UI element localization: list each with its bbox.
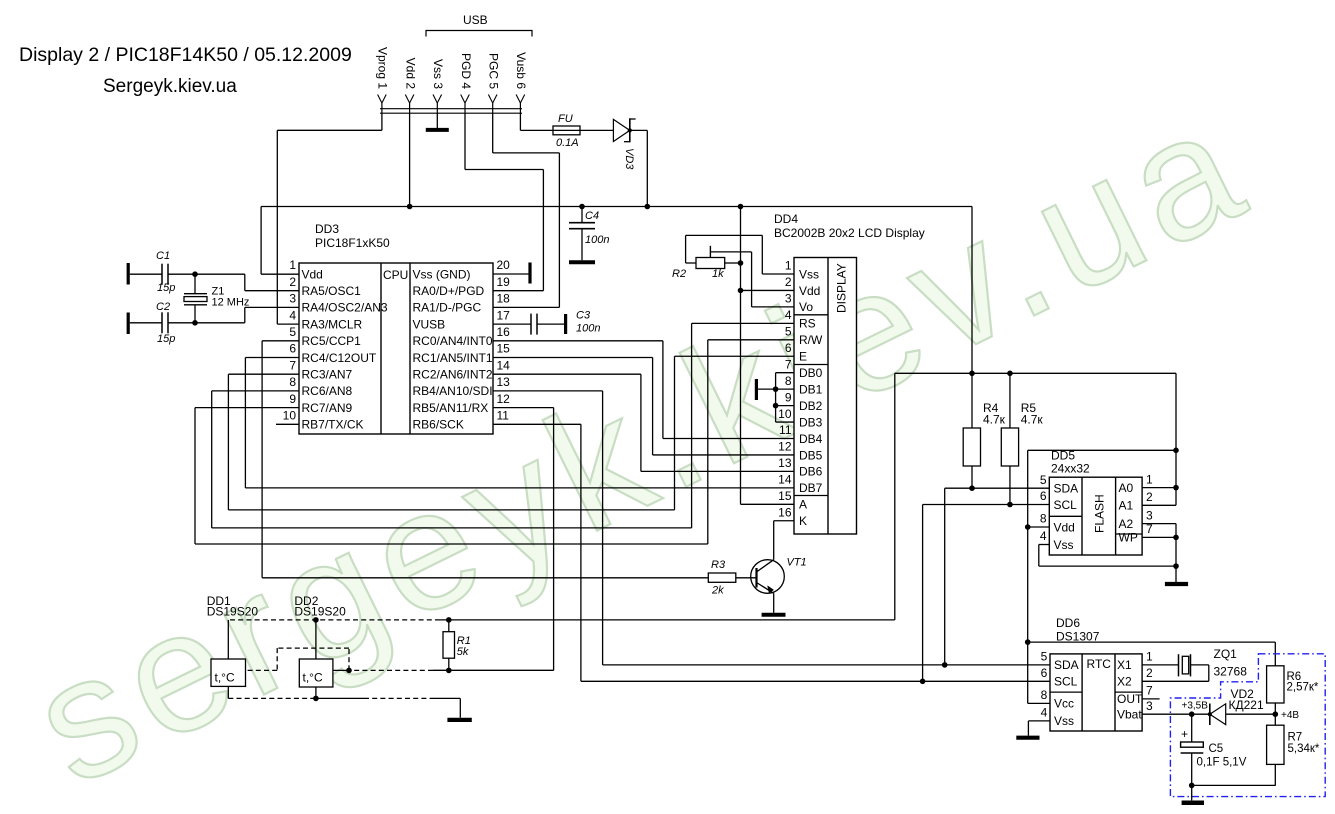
svg-text:2: 2: [289, 275, 296, 289]
svg-text:RC5/CCP1: RC5/CCP1: [302, 334, 362, 348]
svg-text:8: 8: [1040, 512, 1047, 526]
wire R2 left to LCD Vss: [686, 235, 794, 274]
svg-text:BC2002B 20x2 LCD Display: BC2002B 20x2 LCD Display: [774, 226, 925, 240]
svg-text:1: 1: [289, 258, 296, 272]
title text: [19, 44, 352, 66]
wire Vdd pin2 to +5V rail: [409, 113, 411, 206]
junction R1 top: [446, 617, 452, 623]
DD3 pin 17 VUSB: [413, 308, 511, 331]
svg-text:4: 4: [785, 308, 792, 322]
wire 1-wire DQ net RB5: [433, 408, 554, 671]
svg-text:RB5/AN11/RX: RB5/AN11/RX: [413, 401, 489, 415]
subtitle text: [103, 76, 237, 97]
USB pin 3 Vss: [431, 59, 445, 113]
junction DD2 Vdd: [313, 617, 319, 623]
DD3 pin 20 Vss (GND): [413, 258, 511, 281]
svg-text:RA4/OSC2/AN3: RA4/OSC2/AN3: [302, 301, 388, 315]
svg-text:5: 5: [1040, 473, 1047, 487]
svg-text:10: 10: [778, 407, 792, 421]
capacitor C2 15p: [128, 301, 245, 345]
temperature sensor DD1 DS19S20: [207, 594, 259, 686]
wire R3 to VT1 base: [736, 577, 757, 579]
svg-text:Display 2 / PIC18F14K50 / 05.1: Display 2 / PIC18F14K50 / 05.12.2009: [19, 44, 352, 66]
svg-text:Vss: Vss: [1054, 714, 1074, 728]
svg-text:PGD 4: PGD 4: [459, 53, 473, 89]
svg-text:K: K: [799, 514, 807, 528]
svg-text:SDA: SDA: [1054, 482, 1079, 496]
svg-text:32768: 32768: [1214, 665, 1248, 679]
svg-text:RA0/D+/PGD: RA0/D+/PGD: [413, 284, 485, 298]
svg-text:8: 8: [1041, 688, 1048, 702]
svg-text:VT1: VT1: [787, 557, 807, 569]
junction pull-up rail/R4: [969, 371, 975, 377]
junction DB1: [773, 386, 779, 392]
ground USB Vss: [426, 113, 449, 130]
svg-text:100n: 100n: [576, 323, 600, 335]
svg-text:RB4/AN10/SDI: RB4/AN10/SDI: [413, 384, 493, 398]
DD3 pin 15 RC1/AN5/INT1: [413, 342, 511, 365]
DD5 pin 2 A1: [1119, 490, 1154, 513]
svg-text:6: 6: [1041, 666, 1048, 680]
svg-text:2: 2: [1146, 666, 1153, 680]
svg-text:DS19S20: DS19S20: [294, 605, 346, 619]
resistor R3 2k: [708, 559, 736, 597]
svg-text:24xx32: 24xx32: [1051, 462, 1090, 476]
svg-text:C3: C3: [576, 310, 591, 322]
svg-text:DB4: DB4: [799, 432, 823, 446]
svg-text:3: 3: [785, 292, 792, 306]
svg-text:18: 18: [497, 292, 511, 306]
svg-text:5k: 5k: [457, 646, 469, 658]
svg-text:DB1: DB1: [799, 382, 823, 396]
USB pin 4 PGD: [459, 53, 473, 113]
DD5 pin 3 A2: [1119, 508, 1154, 531]
svg-text:13: 13: [778, 456, 792, 470]
svg-text:FU: FU: [558, 113, 573, 125]
svg-text:Vo: Vo: [799, 300, 813, 314]
wire Vusb to fuse FU: [520, 113, 553, 130]
DD5 pin 5 SDA: [1040, 473, 1078, 496]
svg-text:RC1/AN5/INT1: RC1/AN5/INT1: [413, 351, 493, 365]
svg-text:0,1F 5,1V: 0,1F 5,1V: [1197, 757, 1247, 769]
svg-text:19: 19: [497, 275, 511, 289]
IC DD6 DS1307 RTC: [1050, 616, 1142, 731]
svg-text:ZQ1: ZQ1: [1214, 647, 1238, 661]
wire +5V power rail: [261, 207, 972, 275]
wire RC2 to LCD DB6: [493, 374, 794, 471]
capacitor C5 0.1F supercap: [1181, 714, 1247, 785]
DD6 pin 2 X2: [1117, 666, 1153, 689]
svg-text:X1: X1: [1117, 658, 1132, 672]
svg-text:SCL: SCL: [1054, 675, 1078, 689]
ground DD5: [1165, 566, 1188, 584]
wire DD6 Vbat to VD2: [1142, 713, 1210, 715]
fuse FU 0.1A: [553, 113, 580, 149]
junction DQ/DD2: [346, 668, 352, 674]
wire LCD K to VT1 collector: [774, 521, 794, 560]
svg-text:R/W: R/W: [799, 333, 823, 347]
svg-text:RC0/AN4/INT0: RC0/AN4/INT0: [413, 334, 493, 348]
junction R5/SCL: [1007, 502, 1013, 508]
svg-text:1: 1: [1146, 650, 1153, 664]
USB pin 2 Vdd: [403, 58, 417, 114]
DD3 pin 12 RB5/AN11/RX: [413, 392, 511, 415]
svg-text:Vprog 1: Vprog 1: [376, 47, 390, 89]
svg-text:RB6/SCK: RB6/SCK: [413, 418, 464, 432]
svg-text:4.7к: 4.7к: [983, 413, 1006, 427]
junction SDA riser: [942, 662, 948, 668]
svg-text:VD3: VD3: [623, 148, 635, 170]
svg-text:+3,5В: +3,5В: [1182, 701, 1209, 712]
svg-text:USB: USB: [463, 13, 488, 27]
svg-text:DB2: DB2: [799, 399, 823, 413]
wire RC0 to LCD DB4: [493, 341, 794, 439]
DD3 pin 18 RA1/D-/PGC: [413, 292, 511, 315]
svg-text:RA1/D-/PGC: RA1/D-/PGC: [413, 301, 482, 315]
svg-text:PGC 5: PGC 5: [487, 53, 501, 89]
wire RC5 to R3: [262, 341, 708, 578]
diode VD2 KD221: [1208, 687, 1264, 725]
DD6 pin 4 Vss: [1041, 706, 1074, 729]
svg-text:3: 3: [1146, 699, 1153, 713]
svg-text:15: 15: [497, 342, 511, 356]
svg-text:DD5: DD5: [1051, 449, 1075, 463]
node +3,5V: [1182, 701, 1209, 718]
wire SCL net RB6 to DD5/DD6: [493, 424, 1050, 681]
wire RC4 to LCD DB7: [245, 358, 794, 488]
wire DD5 A0: [1142, 487, 1176, 489]
svg-text:14: 14: [497, 358, 511, 372]
DD4 pin 5 R/W: [785, 325, 823, 348]
svg-text:C2: C2: [156, 301, 170, 313]
svg-text:15p: 15p: [157, 333, 175, 345]
DD4 pin 7 DB0: [785, 357, 823, 380]
svg-text:6: 6: [289, 342, 296, 356]
wire R2 wiper to LCD Vo: [710, 252, 794, 307]
junction +5V/C4: [579, 204, 585, 210]
svg-text:RC6/AN8: RC6/AN8: [302, 384, 353, 398]
DD6 pin 7 OUT: [1117, 684, 1153, 707]
DD3 pin 19 RA0/D+/PGD: [413, 275, 511, 298]
DD3 pin 8 RC6/AN8: [289, 375, 352, 398]
temperature sensor DD2 DS19S20: [294, 594, 346, 687]
ground DD6 Vss: [1016, 721, 1050, 738]
svg-text:DD6: DD6: [1056, 616, 1080, 630]
DD4 pin 9 DB2: [785, 390, 823, 413]
svg-text:2: 2: [785, 275, 792, 289]
stub DD3 pin10 RB7: [276, 423, 299, 425]
DD3 pin 6 RC4/C12OUT: [289, 342, 377, 365]
svg-text:VUSB: VUSB: [413, 317, 446, 331]
wire C5/R7 ground link: [1192, 784, 1276, 786]
svg-text:RA5/OSC1: RA5/OSC1: [302, 284, 362, 298]
USB connector bar: [380, 109, 522, 114]
svg-text:RC2/AN6/INT2: RC2/AN6/INT2: [413, 368, 493, 382]
svg-text:DD3: DD3: [315, 222, 339, 236]
DD5 pin 8 Vdd: [1040, 512, 1075, 535]
DD3 pin 1 Vdd: [289, 258, 323, 281]
svg-text:20: 20: [497, 258, 511, 272]
svg-text:DD4: DD4: [774, 212, 798, 226]
svg-text:7: 7: [289, 358, 296, 372]
svg-text:DB7: DB7: [799, 481, 823, 495]
DD4 pin 2 Vdd: [785, 275, 821, 298]
junction DB2: [773, 403, 779, 409]
svg-text:16: 16: [497, 325, 511, 339]
wire FU to VD3: [580, 129, 613, 131]
svg-text:Vss 3: Vss 3: [431, 59, 445, 89]
svg-text:5: 5: [1041, 650, 1048, 664]
USB pin 1 Vprog: [376, 47, 390, 113]
DD3 pin 14 RC2/AN6/INT2: [413, 358, 511, 381]
svg-text:R2: R2: [672, 268, 686, 280]
svg-text:+: +: [1181, 727, 1188, 741]
DD4 pin 1 Vss: [785, 259, 819, 282]
junction WP: [1173, 535, 1179, 541]
resistor R5 4.7k: [1001, 373, 1043, 504]
svg-text:DB0: DB0: [799, 366, 823, 380]
svg-text:КД221: КД221: [1229, 698, 1264, 712]
wire OSC2 to RA4: [245, 307, 299, 322]
svg-text:6: 6: [1040, 489, 1047, 503]
wire PGD to RA0: [465, 113, 543, 291]
svg-text:RB7/TX/CK: RB7/TX/CK: [302, 418, 364, 432]
DD4 pin 16 K: [778, 505, 807, 528]
DD3 pin 3 RA4/OSC2/AN3: [289, 292, 388, 315]
junction +5V/LCD branch: [738, 204, 744, 210]
wire SDA net RB4 to DD5/DD6: [493, 391, 1050, 665]
svg-text:C1: C1: [156, 250, 170, 262]
junction C2/Z1: [192, 320, 198, 326]
svg-text:11: 11: [779, 423, 792, 437]
svg-text:16: 16: [778, 505, 792, 519]
DD4 pin 12 DB5: [778, 440, 823, 463]
wire RC1 to LCD DB5: [493, 358, 794, 455]
wire Vprog to RA3/MCLR: [277, 113, 382, 324]
svg-text:12 MHz: 12 MHz: [212, 297, 250, 309]
DD3 pin 7 RC3/AN7: [289, 358, 352, 381]
ground battery circuit: [1182, 785, 1204, 802]
svg-text:R7: R7: [1288, 732, 1303, 744]
svg-text:A1: A1: [1119, 499, 1134, 513]
svg-text:PIC18F1xK50: PIC18F1xK50: [315, 236, 390, 250]
svg-text:RTC: RTC: [1087, 657, 1112, 671]
svg-text:8: 8: [289, 375, 296, 389]
svg-text:DB6: DB6: [799, 465, 823, 479]
svg-text:+4В: +4В: [1281, 710, 1299, 721]
svg-text:4.7к: 4.7к: [1021, 413, 1044, 427]
crystal Z1 12 MHz: [184, 274, 249, 323]
junction DD5 Vdd pin8: [1025, 524, 1031, 530]
svg-text:8: 8: [785, 374, 792, 388]
svg-text:DS19S20: DS19S20: [207, 605, 259, 619]
svg-text:11: 11: [497, 409, 510, 423]
IC DD4 BC2002B LCD: [774, 212, 925, 534]
resistor R6 2.57k: [1267, 666, 1319, 714]
svg-text:RC4/C12OUT: RC4/C12OUT: [302, 351, 377, 365]
svg-text:Vss: Vss: [799, 267, 819, 281]
svg-text:Vusb 6: Vusb 6: [514, 52, 528, 89]
diode VD3 (Schottky): [613, 118, 635, 170]
svg-text:7: 7: [1146, 684, 1153, 698]
resistor R4 4.7k: [963, 373, 1005, 488]
resistor R1 5k: [443, 620, 471, 671]
wire Vdd to R6 and DD6 Vcc: [1028, 642, 1276, 666]
junction DD5 A0: [1173, 485, 1179, 491]
wire RC7 to LCD R/W: [195, 340, 794, 544]
wire VD2 to +4V node: [1226, 713, 1276, 715]
wire DD5 Vss to ground: [1039, 545, 1176, 567]
svg-text:9: 9: [289, 392, 296, 406]
resistor R7 5.34k: [1267, 714, 1320, 785]
junction DD6 Vcc branch: [1025, 639, 1031, 645]
IC DD5 24xx32 FLASH: [1049, 449, 1142, 556]
wire VD3 cathode to +5V rail: [630, 130, 648, 206]
USB label and bracket: [426, 13, 532, 37]
DD5 pin 1 A0: [1119, 472, 1154, 495]
svg-text:FLASH: FLASH: [1093, 494, 1107, 533]
DD4 pin 11 DB4: [779, 423, 823, 446]
svg-text:2k: 2k: [711, 585, 724, 597]
svg-text:RA3/MCLR: RA3/MCLR: [302, 317, 363, 331]
svg-text:5: 5: [289, 325, 296, 339]
svg-text:DS1307: DS1307: [1056, 630, 1100, 644]
svg-text:2: 2: [1146, 490, 1153, 504]
USB pin 5 PGC: [487, 53, 501, 113]
DD3 pin 13 RB4/AN10/SDI: [413, 375, 511, 398]
svg-text:t,°C: t,°C: [215, 671, 235, 685]
wire OSC1 to RA5: [245, 274, 299, 291]
DD6 pin 6 SCL: [1041, 666, 1078, 689]
capacitor C4 100n: [569, 207, 609, 263]
junction DD5 ground: [1173, 563, 1179, 569]
USB pin 6 Vusb: [514, 52, 528, 113]
svg-text:Vdd: Vdd: [1054, 520, 1075, 534]
svg-text:3: 3: [1146, 508, 1153, 522]
svg-text:Vdd: Vdd: [799, 284, 820, 298]
svg-text:DB3: DB3: [799, 415, 823, 429]
DD5 pin 6 SCL: [1040, 489, 1077, 512]
stub DD6 OUT: [1142, 698, 1160, 700]
svg-text:A2: A2: [1119, 517, 1134, 531]
svg-text:C5: C5: [1209, 743, 1224, 755]
ground DD3 Vss pin20: [493, 263, 530, 284]
svg-text:2,57к*: 2,57к*: [1287, 682, 1319, 694]
wire sensor ground line: [228, 686, 460, 717]
svg-text:Vdd 2: Vdd 2: [403, 58, 417, 90]
DD4 pin 15 A: [778, 489, 807, 512]
DD4 pin 4 RS: [785, 308, 816, 331]
svg-text:A: A: [799, 498, 807, 512]
svg-text:RC3/AN7: RC3/AN7: [302, 368, 353, 382]
DD3 pin 16 RC0/AN4/INT0: [413, 325, 511, 348]
potentiometer R2 1k: [672, 246, 725, 280]
svg-text:6: 6: [785, 341, 792, 355]
svg-text:t,°C: t,°C: [303, 671, 323, 685]
svg-text:OUT: OUT: [1117, 692, 1143, 706]
svg-text:5: 5: [785, 325, 792, 339]
svg-text:A0: A0: [1119, 481, 1134, 495]
DD4 pin 14 DB7: [778, 473, 823, 496]
junction R4/SDA: [969, 485, 975, 491]
wire RC6 to LCD RS: [212, 323, 794, 528]
svg-text:5,34к*: 5,34к*: [1288, 743, 1320, 755]
svg-text:4: 4: [289, 308, 296, 322]
junction SCL riser: [920, 679, 926, 685]
wire +5V branch to LCD Vdd and A: [741, 207, 795, 505]
svg-text:DB5: DB5: [799, 448, 823, 462]
DD4 pin 10 DB3: [778, 407, 823, 430]
svg-text:14: 14: [778, 473, 792, 487]
svg-text:4: 4: [1041, 706, 1048, 720]
svg-text:4: 4: [1040, 529, 1047, 543]
svg-text:0.1A: 0.1A: [556, 137, 579, 149]
svg-text:X2: X2: [1117, 675, 1132, 689]
capacitor C3 100n on VUSB: [493, 310, 600, 335]
junction R1 bottom: [446, 668, 452, 674]
wire PGC to RA1: [493, 113, 560, 307]
DD6 pin 1 X1: [1117, 650, 1153, 673]
DD4 pin 8 DB1: [785, 374, 823, 397]
svg-text:13: 13: [497, 375, 511, 389]
svg-text:E: E: [799, 350, 807, 364]
svg-text:15: 15: [778, 489, 792, 503]
ground VT1 emitter: [762, 593, 786, 615]
svg-text:RC7/AN9: RC7/AN9: [302, 401, 353, 415]
svg-text:9: 9: [785, 390, 792, 404]
wire Vdd to DD5/DD6 supply: [1028, 373, 1176, 703]
svg-text:Vcc: Vcc: [1054, 697, 1074, 711]
capacitor C1 15p: [128, 250, 245, 294]
junction LCD Vdd: [738, 288, 744, 294]
svg-text:17: 17: [497, 308, 511, 322]
junction C5 bottom: [1189, 783, 1195, 789]
DD6 pin 8 Vcc: [1041, 688, 1074, 711]
DD3 pin 2 RA5/OSC1: [289, 275, 361, 298]
svg-text:Vbat: Vbat: [1117, 708, 1142, 722]
transistor VT1 NPN: [751, 557, 807, 594]
svg-text:CPU: CPU: [383, 268, 408, 282]
wire DQ line sensors to R1/RB5: [246, 648, 554, 670]
ground sensors: [447, 718, 471, 722]
junction R2/+5V: [738, 260, 744, 266]
crystal ZQ1 32768: [1142, 647, 1247, 681]
svg-text:WP: WP: [1119, 531, 1138, 545]
DD3 pin 5 RC5/CCP1: [289, 325, 361, 348]
svg-text:10: 10: [283, 409, 297, 423]
svg-text:7: 7: [785, 357, 792, 371]
junction +5V/USB Vdd: [407, 204, 413, 210]
svg-text:100n: 100n: [585, 234, 609, 246]
junction C1/Z1: [192, 271, 198, 277]
ground DB0-DB3 bracket: [756, 373, 794, 422]
wire DD5 A2/WP to ground: [1142, 524, 1176, 567]
svg-text:12: 12: [778, 440, 792, 454]
svg-text:Sergeyk.kiev.ua: Sergeyk.kiev.ua: [103, 76, 237, 97]
svg-text:1: 1: [785, 259, 792, 273]
DD4 pin 13 DB6: [778, 456, 823, 479]
junction pull-up rail/R5: [1007, 371, 1013, 377]
svg-text:C4: C4: [585, 210, 599, 222]
svg-text:SDA: SDA: [1054, 658, 1079, 672]
svg-text:3: 3: [289, 292, 296, 306]
DD6 pin 5 SDA: [1041, 650, 1079, 673]
svg-text:Vdd: Vdd: [302, 267, 323, 281]
DD3 pin 4 RA3/MCLR: [289, 308, 362, 331]
svg-text:SCL: SCL: [1054, 498, 1078, 512]
node +4V: [1273, 710, 1300, 721]
wire sensor Vdd line to pull-up rail: [228, 619, 895, 621]
